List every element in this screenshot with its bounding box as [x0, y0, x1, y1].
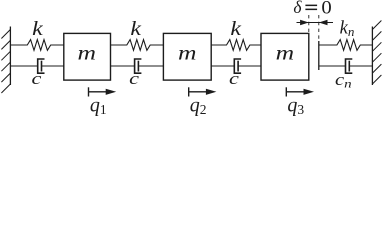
svg-text:k: k	[32, 18, 43, 40]
svg-text:m: m	[276, 42, 294, 64]
svg-text:m: m	[178, 42, 196, 64]
svg-text:k: k	[230, 18, 241, 40]
svg-text:δ: δ	[293, 0, 302, 17]
svg-text:k: k	[130, 18, 141, 40]
svg-text:c: c	[129, 71, 139, 89]
svg-text:0: 0	[321, 0, 332, 18]
svg-text:m: m	[78, 42, 96, 64]
svg-text:c: c	[229, 71, 239, 89]
svg-text:c: c	[31, 71, 41, 89]
